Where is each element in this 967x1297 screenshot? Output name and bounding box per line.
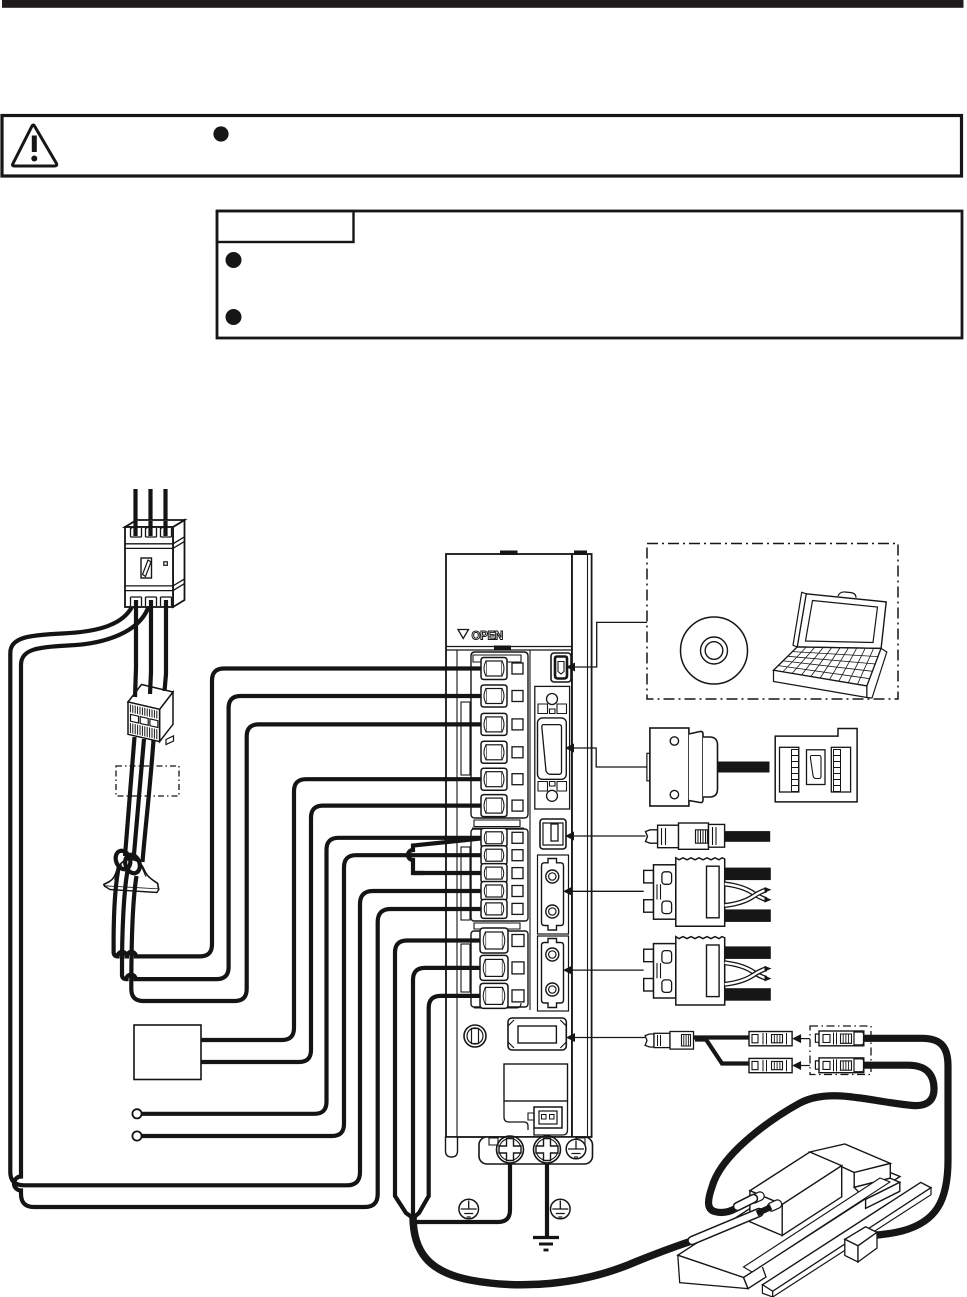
CN1 connector plate — [535, 686, 570, 809]
amp foot — [446, 1137, 458, 1157]
clamp wire loop 2 — [123, 853, 143, 876]
wire MCCB to filter 1 — [135, 600, 136, 697]
wire terminal B1 to circle1 — [142, 838, 485, 1114]
wire tails over amp body — [444, 669, 484, 996]
terminal P3 — [481, 768, 523, 790]
header black bar — [2, 0, 964, 8]
EMI dashed box — [116, 766, 179, 796]
wire L1C loop left — [10, 602, 484, 1185]
leader CN5 — [568, 835, 646, 837]
divider tabs between blocks — [472, 820, 524, 828]
CN5 monitor cable assembly — [646, 823, 771, 849]
CN1 cable — [718, 762, 770, 773]
CN1 cable connector shell — [647, 728, 857, 806]
encoder cable 1 — [864, 1038, 948, 1235]
bottom terminal strip — [479, 1137, 593, 1164]
wire ground from screw — [414, 1163, 510, 1222]
wire MCCB to filter 3 — [165, 600, 167, 691]
earth mark circle left — [459, 1199, 479, 1219]
leader CN1 — [568, 748, 647, 767]
wire regen P to terminal — [201, 779, 484, 1040]
connector E2 — [815, 1058, 863, 1073]
wire motor W — [413, 996, 484, 1218]
terminal W — [480, 983, 524, 1008]
clamp wire loop 1 — [113, 849, 133, 872]
thick wire to M1 — [694, 1035, 750, 1039]
terminal P — [481, 828, 523, 847]
terminal block 3 container — [471, 931, 528, 1007]
CN monitor mini connector — [645, 1032, 693, 1050]
jumper with hop — [408, 838, 484, 873]
wire clamp to L2 run — [122, 696, 484, 979]
wire L2C loop left — [14, 605, 484, 1207]
note bullet 1 — [226, 252, 242, 268]
MCCB breaker — [125, 520, 185, 607]
arrow M1 — [792, 1034, 801, 1043]
wire regen B to terminal — [201, 806, 484, 1062]
CD-ROM — [681, 617, 748, 684]
note title compartment — [217, 211, 354, 242]
servo amplifier front panel — [446, 554, 572, 1137]
terminal L2 — [481, 685, 523, 707]
noise filter — [128, 685, 174, 745]
exit wires from clamp with runs — [114, 669, 484, 1002]
CN8 safety assembly 2 — [644, 937, 772, 1005]
MCCB handle — [141, 558, 152, 578]
terminal U — [480, 928, 524, 953]
terminal circle 1 — [132, 1109, 141, 1118]
PC dashed box — [647, 544, 898, 700]
linear stage base slab — [678, 1144, 931, 1297]
terminal L1 — [481, 658, 523, 680]
CN8 safety assembly 1 — [644, 858, 772, 926]
earth ground symbol — [533, 1236, 559, 1239]
front divider lines — [446, 647, 572, 651]
CN1 hood — [689, 731, 703, 802]
arrow M2 — [792, 1061, 801, 1070]
wire terminal B2 to circle2 — [142, 855, 485, 1136]
leader CN8a — [566, 890, 644, 892]
CN8 container 2 — [538, 936, 569, 1011]
CN1 D-sub — [538, 718, 567, 779]
terminal block 2 container — [471, 829, 528, 921]
cable clamp saddle — [104, 859, 159, 889]
terminal P4 — [481, 795, 523, 817]
caution bullet — [213, 126, 228, 141]
leader CN monitor — [569, 1037, 645, 1039]
wire motor U — [395, 941, 484, 1219]
regen resistor box — [134, 1025, 201, 1080]
earth screw small — [566, 1139, 586, 1159]
svg-text:OPEN: OPEN — [472, 631, 503, 643]
wire long to B2 terminal — [413, 871, 484, 875]
terminal screws — [480, 658, 524, 1009]
terminal L3 — [481, 713, 523, 735]
motor block — [748, 1152, 841, 1236]
terminal D — [481, 846, 523, 865]
stage mid plates — [810, 1144, 891, 1173]
mid rail between — [744, 1178, 891, 1272]
wire motor V — [413, 968, 484, 1220]
connector E1 — [815, 1031, 863, 1046]
ground screw 2 — [534, 1136, 561, 1163]
MCCB bottom terminal tabs — [131, 597, 142, 606]
inner vertical line — [456, 650, 458, 1137]
encoder dashed box — [810, 1026, 871, 1075]
note box — [217, 211, 962, 338]
terminal block 1 container — [471, 652, 528, 818]
wire earth from screw2 — [545, 1163, 549, 1236]
screw bottom left — [464, 1025, 486, 1047]
divider tabs — [474, 923, 520, 929]
connector M1 — [749, 1032, 792, 1046]
MCCB top terminal slots — [131, 527, 142, 538]
incoming wires into clamp — [125, 737, 154, 862]
wire clamp to L1 run — [114, 669, 484, 957]
lower panel rect — [504, 1064, 568, 1101]
long front rail — [762, 1182, 931, 1291]
CN5 connector — [540, 819, 566, 849]
terminal L1C — [481, 882, 523, 901]
laptop — [774, 592, 887, 698]
terminal N — [481, 741, 523, 763]
wire clamp to L3 run — [131, 724, 484, 1001]
ground screw 1 — [497, 1136, 524, 1163]
top black tick side — [574, 551, 587, 556]
CN monitor connector — [508, 1018, 566, 1050]
terminal C — [481, 864, 523, 883]
terminal circle 2 — [132, 1131, 141, 1140]
small block right — [845, 1227, 877, 1262]
note bullet 2 — [226, 309, 242, 325]
leader CN8b — [566, 969, 644, 971]
caution box — [2, 116, 962, 177]
connector M2 — [749, 1058, 792, 1072]
MCCB top wire stubs — [136, 521, 166, 536]
OPEN label — [458, 630, 469, 639]
motor cable tube A — [738, 1199, 754, 1207]
CN8 container 1 — [538, 855, 569, 934]
terminal L2C — [481, 899, 523, 918]
servo amplifier side panel — [572, 554, 592, 1137]
leader USB to PC — [569, 622, 647, 667]
motor thick cable from funnel — [413, 1216, 693, 1285]
input power wire T — [163, 489, 167, 534]
wire MCCB to filter 2 — [150, 600, 151, 694]
CN1 terminal block unit — [775, 729, 857, 802]
terminal V — [480, 955, 524, 980]
input power wire S — [148, 489, 152, 534]
2-pin connector — [534, 1107, 562, 1128]
inner narrow rects — [461, 702, 470, 775]
caution triangle icon — [13, 125, 57, 166]
tube sockets — [748, 1191, 783, 1213]
motor cable tube B — [692, 1213, 759, 1241]
thick wire to M2 — [695, 1040, 749, 1064]
earth mark circle right — [551, 1199, 571, 1219]
top black tick front — [500, 551, 518, 556]
input power wire R — [133, 489, 137, 534]
encoder cable 2 — [709, 1065, 934, 1212]
USB connector CN7 — [551, 653, 571, 682]
